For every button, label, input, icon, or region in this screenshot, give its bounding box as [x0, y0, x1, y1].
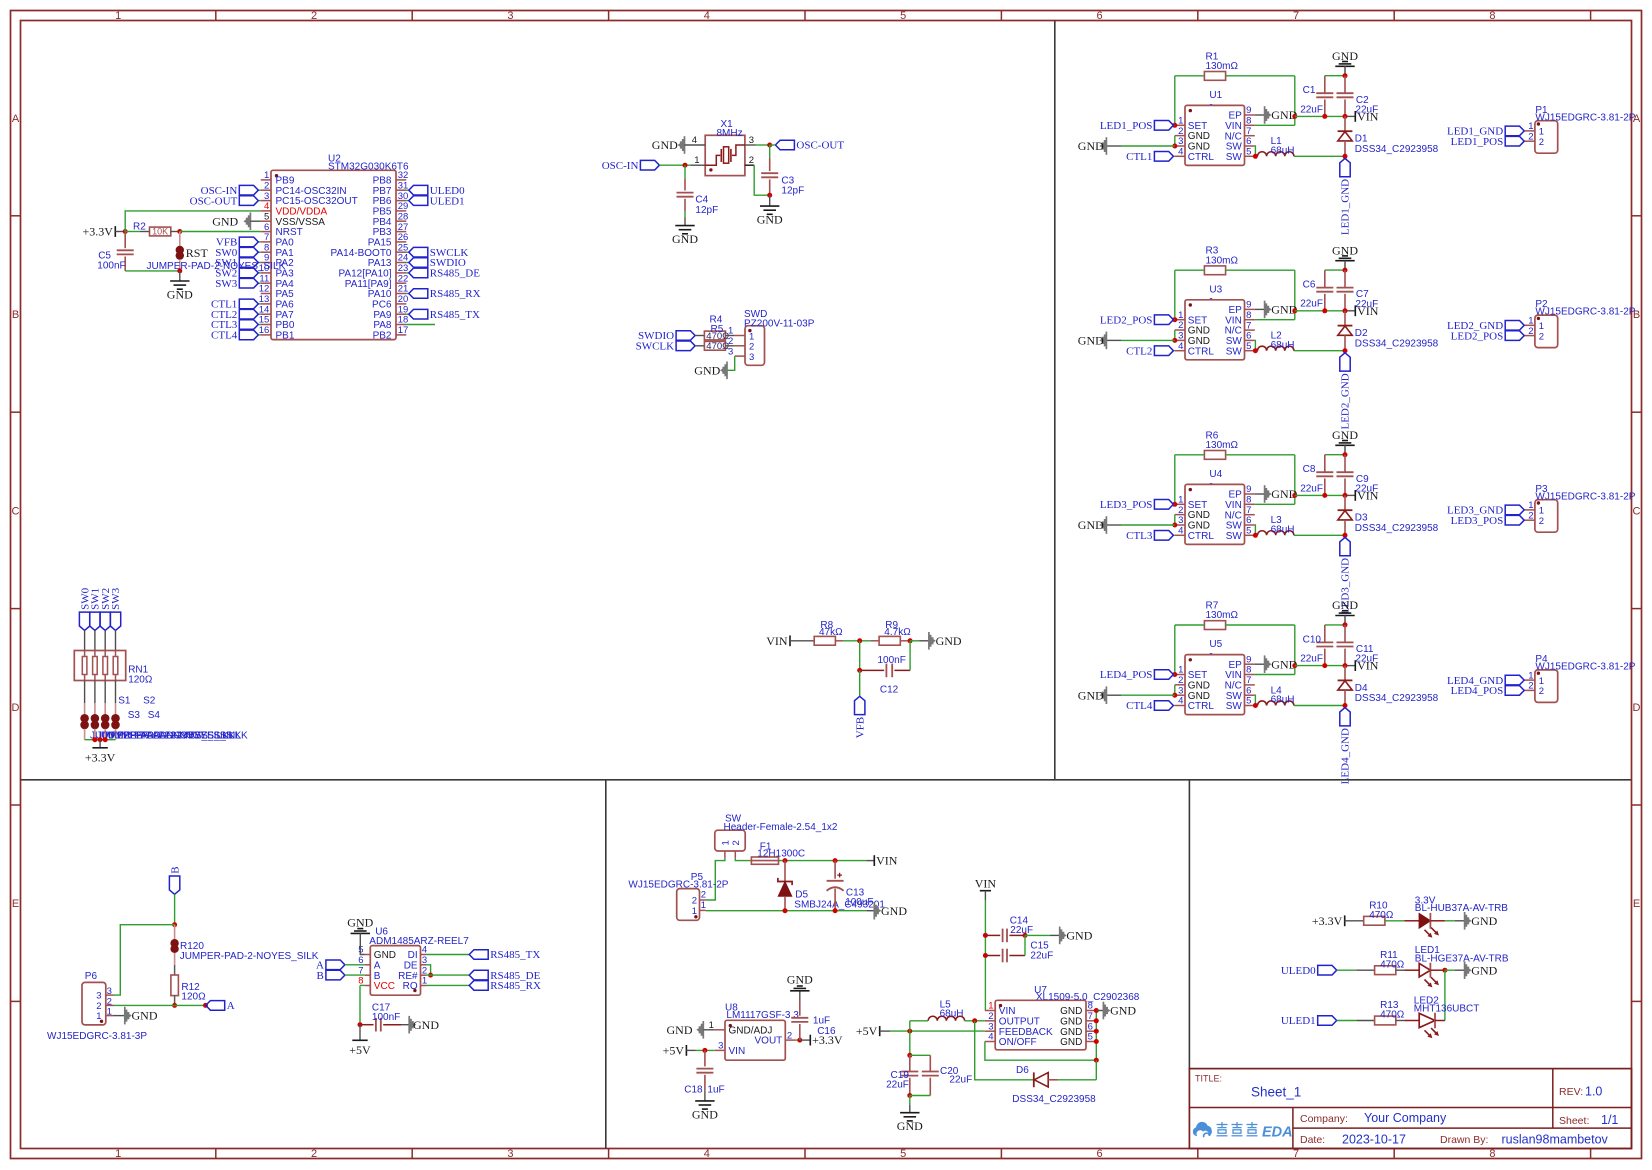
U4 pin 3 GND	[1175, 515, 1210, 531]
jumper pad S2 JUMPER-PAD-2-NOYES_SILK	[91, 703, 236, 741]
resistor network RN1 120Ω	[74, 651, 153, 686]
U6 pin 2 RE#	[398, 965, 427, 981]
wire B flag to U6	[345, 974, 365, 976]
capacitor C10 22uF	[1300, 625, 1333, 666]
svg-text:1.0: 1.0	[1585, 1085, 1602, 1099]
wire SW3 to RN1	[115, 630, 117, 650]
wire VIN node line	[1295, 310, 1345, 312]
wire	[406, 272, 408, 274]
svg-text:WJ15EDGRC-3.81-2P: WJ15EDGRC-3.81-2P	[1535, 307, 1635, 318]
svg-text:JUMPER-PAD-2-NOYES_SILK: JUMPER-PAD-2-NOYES_SILK	[180, 951, 319, 962]
svg-text:1: 1	[694, 155, 699, 166]
wire C17 to ground	[401, 1024, 409, 1026]
svg-text:RO: RO	[403, 981, 418, 992]
LED LED1 BL-HGE37A-AV-TRB	[1404, 945, 1508, 978]
svg-text:GND: GND	[787, 973, 813, 987]
svg-text:E: E	[1633, 898, 1640, 910]
net flag LED3_GND below D3	[1340, 537, 1352, 614]
svg-text:R5: R5	[711, 324, 724, 335]
net flag LED1_POS at U1 SET	[1100, 120, 1174, 132]
ground earth below C19 C20	[897, 1113, 923, 1134]
wire	[1345, 310, 1355, 312]
power flag VIN of channel 2	[1355, 304, 1378, 318]
wire U5 EP to ground	[1255, 663, 1265, 665]
svg-text:2: 2	[1539, 516, 1544, 527]
net flag LED3_GND at P3 pin 1	[1447, 505, 1524, 517]
U2 pin 3 PC15-OSC32OUT	[261, 191, 358, 207]
U5 pin 1 SET	[1175, 665, 1207, 681]
power flag +3.3V at R2	[82, 225, 115, 239]
svg-text:OSC-OUT: OSC-OUT	[796, 140, 844, 152]
wire SW pin2 to F1	[735, 858, 751, 861]
net flag OSC-IN at U2 pin 2	[201, 185, 259, 197]
wire	[259, 189, 261, 191]
LED2 light arrows	[1425, 1030, 1433, 1038]
svg-text:130mΩ: 130mΩ	[1206, 255, 1239, 266]
svg-text:SW: SW	[1226, 531, 1243, 542]
junction R6 VIN node	[1292, 493, 1297, 498]
net flag B at U6	[317, 970, 345, 982]
wire	[880, 1030, 890, 1032]
U2 pin 20 PC6	[372, 294, 408, 310]
svg-text:2: 2	[1178, 320, 1183, 331]
wire VIN down to U7	[984, 900, 986, 1011]
junction OUTPUT D6 node	[972, 1018, 977, 1023]
svg-text:22uF: 22uF	[1300, 654, 1323, 665]
net flag SW0 above RN1	[79, 587, 91, 630]
net flag SWDIO at U2 pin 24	[409, 257, 466, 269]
svg-text:LED3_POS: LED3_POS	[1451, 515, 1504, 527]
wire	[686, 1049, 695, 1051]
U2 pin 22 PA11[PA9]	[345, 273, 408, 289]
wire R8 lead	[835, 640, 843, 642]
svg-text:DSS34_C2923958: DSS34_C2923958	[1355, 693, 1439, 704]
wire R1 right	[1226, 75, 1295, 77]
net flag A at P6	[206, 1000, 235, 1012]
junction ground C2 top	[1343, 73, 1348, 78]
ground flag at LED1	[1465, 961, 1498, 979]
svg-text:RS485_TX: RS485_TX	[490, 949, 540, 961]
svg-text:5: 5	[1246, 341, 1251, 352]
wire R1 left	[1175, 75, 1205, 77]
wire L5 to +5V node	[909, 1021, 911, 1031]
junction R9 ground node	[908, 638, 913, 643]
svg-text:SWCLK: SWCLK	[636, 341, 675, 353]
net flag A at U6	[316, 960, 345, 972]
svg-text:+5V: +5V	[349, 1043, 371, 1057]
wire C4 to ground	[684, 211, 686, 218]
svg-text:C10: C10	[1303, 634, 1322, 645]
wire U6 DE join RE#	[426, 965, 431, 975]
capacitor C19 22uF	[886, 1055, 918, 1095]
wire	[406, 251, 408, 253]
svg-text:-: -	[1209, 294, 1212, 305]
net flag ULED0 at U2 pin 31	[409, 185, 465, 197]
resistor R1 130mΩ	[1204, 51, 1238, 80]
resistor R4 470Ω	[704, 315, 729, 342]
svg-text:+3.3V: +3.3V	[1312, 914, 1343, 928]
svg-text:CTL3: CTL3	[1126, 530, 1153, 542]
section partition vertical line bottom right	[1188, 780, 1190, 1069]
wire	[406, 313, 408, 315]
connector P2 WJ15EDGRC-3.81-2P	[1525, 299, 1636, 347]
svg-text:LED1_GND: LED1_GND	[1340, 179, 1352, 235]
junction OSC-OUT node	[767, 143, 772, 148]
crystal X1 8MHz	[705, 119, 745, 175]
U7 pin 3 FEEDBACK	[985, 1021, 1053, 1037]
net flag SW1 at U2 pin 9	[215, 257, 258, 269]
net flag SWDIO	[638, 330, 695, 342]
svg-text:68uH: 68uH	[1271, 145, 1295, 156]
wire	[1345, 115, 1355, 117]
capacitor C1 22uF	[1300, 76, 1333, 117]
wire stub at U2 pin 18 PA8	[406, 324, 435, 326]
svg-text:100nF: 100nF	[97, 261, 125, 272]
svg-text:+3.3V: +3.3V	[82, 225, 113, 239]
junction R12 A node	[172, 1003, 177, 1008]
wire	[1173, 534, 1175, 536]
junction S2 node	[92, 737, 97, 742]
U3 pin 1 SET	[1175, 310, 1207, 326]
wire to OSC-OUT node	[756, 144, 770, 146]
svg-text:CTL4: CTL4	[211, 330, 238, 342]
wire C15 leads	[985, 955, 1025, 957]
net flag CTL1 at U1 CTRL	[1126, 151, 1173, 163]
border row ticks	[11, 216, 1642, 1002]
ground flag at U1 EP	[1265, 106, 1298, 124]
svg-text:TITLE:: TITLE:	[1195, 1074, 1222, 1084]
wire to +3.3V flag	[99, 740, 101, 748]
wire ground to U8 pin 1	[703, 1029, 714, 1031]
IC U7 XL1509-5.0_C2902368	[995, 985, 1140, 1050]
wire to ground	[179, 271, 181, 281]
LED LED2 MHT136UBCT	[1404, 995, 1479, 1028]
net flag SW3 above RN1	[110, 587, 122, 630]
power flag VIN of channel 3	[1355, 489, 1378, 503]
junction C7 D2 node	[1343, 308, 1348, 313]
wire +5V node down to C19	[909, 1031, 911, 1055]
net flag SW2 above RN1	[100, 588, 112, 631]
wire R7 left	[1175, 624, 1205, 626]
U5 pin 2 GND	[1175, 675, 1210, 691]
svg-text:CTL2: CTL2	[1126, 345, 1152, 357]
svg-text:8: 8	[1246, 310, 1251, 321]
svg-text:-: -	[1209, 649, 1212, 660]
svg-text:Your Company: Your Company	[1364, 1111, 1447, 1125]
junction C14 right	[1023, 933, 1028, 938]
junction at A flag	[203, 1003, 208, 1008]
junction ON/OFF ground	[1094, 1058, 1099, 1063]
LED 3.3V BL-HUB37A-AV-TRB	[1404, 895, 1508, 928]
svg-text:GND: GND	[652, 138, 678, 152]
capacitor C9 22uF	[1337, 455, 1379, 496]
wire R12 to A node	[174, 995, 176, 1005]
svg-text:P6: P6	[85, 971, 98, 982]
svg-text:RS485_TX: RS485_TX	[430, 309, 480, 321]
net flag LED1_GND below D1	[1340, 158, 1352, 235]
svg-text:22uF: 22uF	[1300, 299, 1323, 310]
svg-text:Company:: Company:	[1300, 1113, 1348, 1125]
svg-text:22uF: 22uF	[1355, 483, 1378, 494]
wire	[259, 324, 261, 326]
U2 pin 31 PB7	[373, 180, 409, 196]
svg-text:PC14-OSC32IN: PC14-OSC32IN	[276, 186, 347, 197]
logo JLC EDA text	[1217, 1122, 1293, 1140]
U3 pin 8 VIN	[1225, 310, 1255, 326]
junction LED4_POS SET node	[1172, 672, 1177, 677]
net flag LED2_GND below D2	[1340, 353, 1352, 430]
svg-text:GND: GND	[936, 634, 962, 648]
inductor L5 68uH	[928, 1000, 964, 1021]
wire R3 to VIN pin	[1294, 270, 1296, 320]
wire caps to ground	[909, 1096, 911, 1106]
svg-text:CTL4: CTL4	[1126, 700, 1153, 712]
wire U4 VIN pin to node	[1255, 503, 1295, 505]
wire R9 lead	[871, 640, 879, 642]
net flag LED4_GND at P4 pin 1	[1447, 675, 1524, 687]
logo JLC EDA cloud icon	[1193, 1122, 1212, 1137]
junction C18 node	[702, 1048, 707, 1053]
U6 pin 3 DE	[404, 955, 428, 971]
svg-text:GND: GND	[1078, 139, 1104, 153]
inductor L4 68uH	[1258, 685, 1295, 705]
svg-text:2: 2	[787, 1030, 792, 1041]
wire R3 to SET	[1174, 270, 1176, 320]
svg-text:EDA: EDA	[1262, 1124, 1293, 1140]
svg-text:PB1: PB1	[276, 331, 295, 342]
wire U5 pin2 to pin3	[1174, 685, 1176, 695]
capacitor C14 22uF	[1003, 915, 1033, 942]
svg-text:130mΩ: 130mΩ	[1206, 61, 1239, 72]
wire L3 to D3 node	[1294, 534, 1345, 536]
resistor R6 130mΩ	[1204, 430, 1238, 459]
svg-text:ULED1: ULED1	[430, 195, 465, 207]
U8 pin 2 VOUT	[755, 1030, 796, 1046]
svg-text:1: 1	[115, 10, 121, 22]
svg-text:RS485_RX: RS485_RX	[430, 288, 481, 300]
net flag RS485_TX at U2 pin 19	[409, 309, 480, 321]
svg-text:8MHz: 8MHz	[717, 128, 743, 139]
wire RE# to RS485_DE	[426, 974, 469, 976]
U2 pin 13 PA6	[259, 294, 294, 310]
wire R7 right	[1226, 624, 1295, 626]
border row letters	[12, 113, 1641, 910]
IC U5 LED driver	[1185, 639, 1245, 715]
svg-text:68uH: 68uH	[1271, 695, 1295, 706]
svg-text:GND: GND	[1078, 688, 1104, 702]
wire U3 EP to ground	[1255, 308, 1265, 310]
svg-text:8: 8	[1246, 495, 1251, 506]
wire	[259, 303, 261, 305]
svg-text:VIN: VIN	[1225, 670, 1242, 681]
svg-text:+3.3V: +3.3V	[85, 750, 116, 764]
resistor R8 47kΩ	[814, 620, 843, 645]
svg-text:2: 2	[1178, 505, 1183, 516]
junction RST ground node	[177, 268, 182, 273]
wire ground to U6 GND	[360, 933, 365, 954]
wire	[1106, 339, 1121, 341]
capacitor C15 22uF	[1003, 941, 1054, 963]
junction C15 left	[983, 953, 988, 958]
net flag CTL4 at U5 CTRL	[1126, 700, 1173, 712]
net flag SW3 at U2 pin 11	[215, 278, 258, 290]
svg-text:22uF: 22uF	[1300, 104, 1323, 115]
net flag LED2_GND at P2 pin 1	[1447, 320, 1524, 332]
net flag RS485_RX at U6	[469, 980, 541, 992]
wire R6 to SET	[1174, 455, 1176, 505]
wire C20 bottom join	[910, 1095, 931, 1097]
svg-text:1: 1	[107, 1007, 112, 1018]
net flag OSC-OUT at X1 pin 3	[775, 140, 844, 152]
junction C19 top	[907, 1053, 912, 1058]
wire	[1345, 665, 1355, 667]
svg-text:DSS34_C2923958: DSS34_C2923958	[1355, 338, 1439, 349]
svg-text:22uF: 22uF	[1300, 483, 1323, 494]
svg-text:4: 4	[704, 10, 710, 22]
svg-text:+5V: +5V	[663, 1044, 685, 1058]
svg-text:VIN: VIN	[766, 634, 788, 648]
U6 pin 7 B	[358, 965, 381, 981]
svg-text:6: 6	[1097, 1148, 1103, 1160]
svg-text:47kΩ: 47kΩ	[819, 627, 843, 638]
svg-text:DSS34_C2923958: DSS34_C2923958	[1355, 144, 1439, 155]
power flag VIN of channel 1	[1355, 110, 1378, 124]
junction C3 ground node	[767, 193, 772, 198]
wire ground stem C2	[1344, 66, 1346, 75]
ground flag at P6 pin 1	[125, 1007, 158, 1025]
svg-text:LED4_POS: LED4_POS	[1100, 669, 1153, 681]
wire U7 ground pins bus	[1095, 1011, 1097, 1061]
wire	[1173, 705, 1175, 707]
wire B node to P6 pin 3	[114, 925, 175, 995]
svg-text:28: 28	[398, 211, 409, 222]
wire into X1 pin 1	[690, 164, 705, 166]
wire to C20 top	[910, 1054, 931, 1056]
U6 pin 8 VCC	[358, 976, 395, 992]
power flag +3.3V at R10	[1312, 914, 1345, 928]
U5 pin 5 SW	[1226, 696, 1255, 712]
svg-text:GND: GND	[757, 213, 783, 227]
svg-text:BL-HUB37A-AV-TRB: BL-HUB37A-AV-TRB	[1415, 903, 1509, 914]
capacitor C8 22uF	[1300, 455, 1333, 496]
svg-text:8: 8	[1246, 665, 1251, 676]
svg-text:GND: GND	[667, 1023, 693, 1037]
U2 pin 16 PB1	[259, 325, 295, 341]
resistor R11 470Ω	[1375, 950, 1405, 975]
wire R9 lead right	[900, 640, 910, 642]
junction DE RE# node	[428, 973, 433, 978]
svg-text:RS485_RX: RS485_RX	[490, 980, 541, 992]
svg-text:470Ω: 470Ω	[1380, 959, 1405, 970]
U5 pin 3 GND	[1175, 685, 1210, 701]
svg-text:C16: C16	[817, 1026, 836, 1037]
svg-text:GND: GND	[347, 915, 373, 929]
wire ground to U4 GND pins	[1121, 524, 1175, 526]
junction U1 ground pins	[1172, 144, 1177, 149]
title block Sheet row	[1559, 1113, 1618, 1127]
wire R11 to LED1	[1396, 969, 1405, 971]
U2 pin 6 NRST	[261, 222, 303, 238]
svg-text:LED4_GND: LED4_GND	[1340, 728, 1352, 784]
wire U3 SW pins join	[1254, 340, 1257, 350]
jumper pad S4 JUMPER-PAD-2-NOYES_SILK	[109, 703, 248, 741]
svg-text:1: 1	[96, 1011, 101, 1022]
wire ground stem C9	[1344, 445, 1346, 454]
svg-text:7: 7	[1088, 1011, 1093, 1022]
section partition vertical line bottom left	[605, 780, 607, 1149]
junction C9 D3 node	[1343, 493, 1348, 498]
svg-text:2: 2	[1539, 331, 1544, 342]
svg-text:1/1: 1/1	[1601, 1113, 1618, 1127]
junction U3 SW node	[1253, 348, 1258, 353]
U2 pin 9 PA2	[261, 253, 294, 269]
power flag +5V below U6	[349, 1040, 371, 1057]
power flag VIN of channel 4	[1355, 659, 1378, 673]
ground earth below C4	[672, 226, 698, 247]
resistor R13 470Ω	[1375, 1000, 1405, 1025]
svg-text:VIN: VIN	[729, 1046, 746, 1057]
ground flag at C14	[1060, 927, 1093, 945]
svg-text:GND: GND	[1471, 963, 1497, 977]
IC U4 LED driver	[1185, 469, 1245, 545]
capacitor C18 1uF	[684, 1050, 724, 1095]
wire R6 to VIN pin	[1294, 455, 1296, 505]
svg-text:DSS34_C2923958: DSS34_C2923958	[1355, 523, 1439, 534]
connector P3 WJ15EDGRC-3.81-2P	[1525, 484, 1636, 532]
net flag ULED1	[1281, 1015, 1337, 1027]
svg-text:Header-Female-2.54_1x2: Header-Female-2.54_1x2	[724, 822, 838, 833]
svg-text:LED3_POS: LED3_POS	[1100, 499, 1153, 511]
svg-text:4: 4	[1178, 526, 1183, 537]
U3 pin 2 GND	[1175, 320, 1210, 336]
power flag +5V at U7 feedback	[856, 1024, 880, 1038]
U7 pin 5 GND	[1060, 1032, 1096, 1048]
ground flag at U8 pin 1	[667, 1021, 704, 1039]
wire F1 to VIN	[779, 860, 867, 862]
U1 pin 6 SW	[1226, 136, 1255, 152]
wire C14 leads	[985, 934, 1025, 936]
svg-text:VIN: VIN	[1225, 315, 1242, 326]
wire R7 to SET	[1174, 625, 1176, 675]
svg-text:2: 2	[749, 155, 754, 166]
U4 pin 8 VIN	[1225, 495, 1255, 511]
junction ground C11 top	[1343, 622, 1348, 627]
wire	[1173, 503, 1175, 505]
wire ULED0 to R11	[1337, 969, 1357, 971]
svg-text:GND: GND	[413, 1018, 439, 1032]
svg-text:OSC-OUT: OSC-OUT	[190, 195, 238, 207]
wire ground to U1 GND pins	[1121, 145, 1175, 147]
svg-text:R2: R2	[133, 221, 146, 232]
U1 pin 4 CTRL	[1175, 147, 1215, 163]
wire ground to U3 GND pins	[1121, 339, 1175, 341]
svg-text:B: B	[317, 970, 324, 982]
ground earth above C9	[1332, 428, 1358, 445]
wire	[1173, 319, 1175, 321]
wire +5V to U7 FEEDBACK	[890, 1030, 985, 1032]
svg-text:68uH: 68uH	[940, 1009, 964, 1020]
net flag RS485_TX at U6	[469, 949, 540, 961]
svg-text:S4: S4	[148, 710, 161, 721]
net flag VFB at U2 pin 7	[216, 237, 258, 249]
svg-text:C1: C1	[1303, 85, 1316, 96]
svg-text:REV:: REV:	[1559, 1086, 1583, 1098]
svg-text:SW: SW	[1226, 701, 1243, 712]
svg-text:D6: D6	[1016, 1065, 1029, 1076]
wire	[1106, 524, 1121, 526]
ground flag at U5 EP	[1265, 655, 1298, 673]
svg-text:LM1117GSF-3.3: LM1117GSF-3.3	[726, 1010, 799, 1021]
